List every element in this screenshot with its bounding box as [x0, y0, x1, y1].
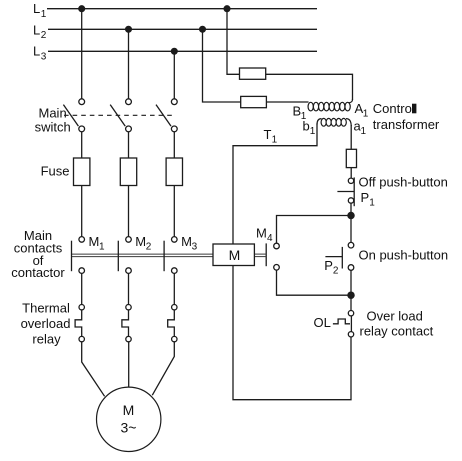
svg-text:1: 1 [272, 134, 278, 145]
main switch pole 2 [110, 99, 131, 132]
junction L1 phase tap [79, 6, 85, 12]
on push-button P2 (NO) [325, 242, 353, 270]
svg-text:P: P [361, 190, 370, 205]
node L3 label [33, 44, 47, 63]
pin label B1 [293, 103, 307, 122]
node L1 label [33, 1, 47, 20]
contactor linkage bar [72, 254, 214, 257]
label M4 [256, 225, 273, 244]
wire contact M2 to overload 2 [128, 273, 130, 304]
svg-text:contactor: contactor [11, 265, 65, 280]
fuse F2 [120, 158, 136, 186]
wire P2 to node 2 [350, 270, 352, 292]
svg-text:Fuse: Fuse [41, 163, 70, 178]
wire L2 drop to switch [128, 29, 130, 99]
thermal overload relay label [21, 301, 71, 347]
overload element 1 [75, 305, 84, 342]
fuse F1 [74, 158, 90, 186]
wire F5 to transformer B1 [266, 101, 308, 103]
svg-text:M: M [229, 247, 241, 263]
control circuit fuse F6 [346, 149, 356, 167]
wire overload 1 to motor [82, 342, 105, 397]
wire fuse 2 to contact M2 [128, 186, 130, 237]
label OL [314, 315, 331, 330]
motor label [121, 402, 137, 436]
junction L2 phase tap [126, 26, 132, 32]
main contacts label [11, 228, 65, 280]
svg-text:2: 2 [146, 242, 152, 253]
main switch pole 3 [156, 99, 177, 132]
junction L1 control tap [224, 6, 230, 12]
wire overload 2 to motor [128, 342, 130, 387]
svg-text:M: M [135, 234, 146, 249]
svg-text:Main: Main [39, 105, 67, 120]
label P2 [324, 258, 339, 277]
svg-text:M: M [256, 225, 267, 240]
overload element 2 [122, 305, 131, 342]
junction L2 control tap [200, 26, 206, 32]
wire fuse 1 to contact M1 [81, 186, 83, 237]
wire a1 to control fuse [350, 125, 352, 149]
wire T1 secondary b1 to coil rail [233, 124, 317, 245]
svg-text:OL: OL [314, 315, 331, 330]
control transformer T1 primary winding [308, 99, 352, 111]
pin label A1 [355, 101, 369, 120]
contactor coil label [229, 247, 241, 263]
main contact M3 [164, 237, 177, 274]
wire F4 to transformer A1 [266, 74, 353, 100]
svg-text:overload: overload [21, 316, 71, 331]
wire L3 drop to switch [173, 51, 175, 99]
main switch label [35, 105, 71, 134]
fuse label [41, 163, 70, 178]
svg-text:Over load: Over load [367, 308, 423, 323]
svg-text:L: L [33, 1, 40, 16]
main contact M2 [118, 237, 131, 274]
svg-text:T: T [264, 127, 272, 142]
wire L2 bus [48, 28, 317, 30]
wire L2 tap to control fuse F5 [203, 29, 241, 102]
svg-text:Contro: Contro [373, 101, 412, 116]
M4 linkage bar [255, 254, 267, 257]
svg-text:L: L [33, 22, 40, 37]
svg-text:switch: switch [35, 119, 71, 134]
control transformer T1 secondary winding [317, 118, 351, 126]
node L2 label [33, 22, 47, 41]
wire node1 to P2 [350, 219, 352, 243]
contactor coil M [213, 244, 254, 266]
label M3 [181, 234, 198, 253]
svg-text:Off push-button: Off push-button [359, 175, 448, 190]
wire L1 bus [47, 8, 317, 10]
svg-text:1: 1 [99, 242, 105, 253]
svg-text:L: L [33, 44, 40, 59]
wire M4 to node 2 [277, 270, 352, 295]
wire overload 3 to motor [152, 342, 174, 395]
holding contact M4 [266, 243, 279, 270]
overload relay contact OL (NC) [333, 311, 354, 337]
wire P1 to node 1 [350, 203, 352, 215]
wire L1 drop to switch [81, 9, 83, 99]
wire L1 tap to control fuse F4 [227, 9, 240, 75]
on push-button label [359, 248, 449, 263]
svg-text:P: P [324, 258, 333, 273]
svg-text:Thermal: Thermal [22, 301, 70, 316]
main contact M1 [72, 237, 85, 274]
control fuse F4 [240, 68, 266, 79]
svg-text:relay contact: relay contact [360, 323, 434, 338]
svg-text:transformer: transformer [373, 117, 440, 132]
label M1 [89, 234, 106, 253]
overload element 3 [168, 305, 177, 342]
svg-text:3: 3 [41, 51, 47, 62]
overload contact label [360, 308, 434, 338]
pin label b1 [303, 118, 316, 137]
svg-text:M: M [123, 402, 135, 418]
wire node 1 to M4 branch [277, 216, 352, 244]
junction node 2 [348, 292, 354, 298]
label P1 [361, 190, 376, 209]
svg-text:M: M [181, 234, 192, 249]
svg-text:M: M [89, 234, 100, 249]
svg-text:1: 1 [361, 126, 367, 137]
motor M 3-phase [97, 387, 161, 451]
wire node 2 to OL contact [350, 295, 352, 310]
pin label a1 [354, 118, 367, 137]
svg-text:1: 1 [369, 198, 375, 209]
junction L3 phase tap [171, 48, 177, 54]
main switch linkage (dashed) [64, 114, 172, 116]
wire OL to bottom rail [233, 266, 351, 400]
junction node 1 [348, 212, 354, 218]
svg-text:3~: 3~ [121, 419, 137, 435]
svg-text:1: 1 [310, 126, 316, 137]
wire switch to fuse 2 [128, 132, 130, 158]
label M2 [135, 234, 152, 253]
wire switch to fuse 1 [81, 132, 83, 158]
node T1 label [264, 127, 278, 146]
svg-text:2: 2 [41, 30, 47, 41]
wire fuse 3 to contact M3 [173, 186, 175, 237]
svg-text:4: 4 [267, 233, 273, 244]
svg-text:relay: relay [32, 332, 61, 347]
svg-text:2: 2 [333, 266, 339, 277]
wire F6 to off push-button [350, 168, 352, 179]
wire switch to fuse 3 [173, 132, 175, 158]
scan artifact bar after Control [412, 104, 416, 114]
svg-text:1: 1 [41, 9, 47, 20]
off push-button label [359, 175, 448, 190]
off push-button P1 (NC) [337, 177, 354, 206]
wire contact M3 to overload 3 [173, 273, 175, 304]
svg-text:b: b [303, 118, 310, 133]
control transformer label [373, 101, 440, 132]
svg-text:On push-button: On push-button [359, 248, 449, 263]
svg-text:1: 1 [363, 109, 369, 120]
main switch pole 1 [63, 99, 84, 132]
wire contact M1 to overload 1 [81, 273, 83, 304]
svg-text:3: 3 [192, 242, 198, 253]
fuse F3 [166, 158, 182, 186]
control fuse F5 [241, 96, 267, 107]
wire L3 bus [48, 50, 317, 52]
